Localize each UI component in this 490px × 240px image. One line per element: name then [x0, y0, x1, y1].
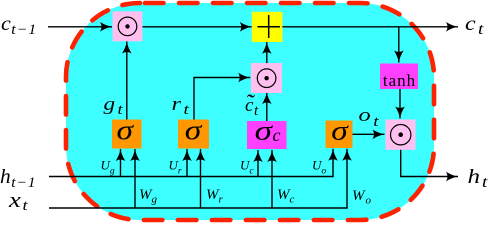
svg-text:σ: σ	[331, 116, 349, 146]
svg-text:tanh: tanh	[383, 71, 416, 90]
wire c~ gate up to mult2	[266, 92, 268, 121]
svg-text:c: c	[273, 125, 281, 145]
wire mult2 up to plus	[266, 42, 268, 63]
wire c_{t-1} input to mult1	[48, 26, 112, 28]
wire U_c branch into c~ gate	[257, 150, 259, 177]
wire mult1 to plus	[142, 26, 251, 28]
sigma gate o (orange)	[326, 116, 353, 148]
sigma gate r (orange)	[178, 115, 209, 148]
mult2 (element-wise product, middle)	[251, 63, 282, 93]
sigma gate g (orange)	[112, 115, 142, 148]
wire tanh to mult3	[399, 89, 401, 119]
svg-text:xt: xt	[8, 188, 28, 214]
sigma_c gate (magenta)	[247, 115, 287, 149]
svg-text:ht: ht	[468, 165, 489, 190]
wire r gate up and right to mult2	[194, 78, 250, 120]
wire W_r branch into r gate	[200, 149, 202, 208]
wire o gate to mult3	[353, 133, 385, 135]
svg-text:ct: ct	[465, 12, 485, 38]
svg-text:σ: σ	[116, 115, 134, 145]
wire plus to c_t output	[282, 26, 458, 28]
wire U_r branch into r gate	[186, 149, 188, 177]
plus (add node, yellow)	[252, 12, 283, 42]
wire mult3 down and right to h_t output	[401, 150, 458, 177]
wire U_g branch into g gate	[120, 149, 122, 177]
svg-text:ct−1: ct−1	[1, 12, 37, 38]
wire branch down to tanh	[398, 27, 400, 63]
wire W_c branch into c~ gate	[271, 150, 273, 208]
svg-text:σ: σ	[255, 115, 274, 145]
wire g gate up to mult1	[126, 42, 128, 120]
wire W_g branch into g gate	[134, 149, 136, 208]
mult1 (element-wise product, top left)	[113, 11, 143, 41]
svg-text:σ: σ	[185, 115, 203, 145]
tanh box	[380, 64, 418, 91]
cell body (cyan rounded blob with red dashed border)	[66, 3, 434, 220]
wire h_{t-1} input line across, turning up into o gate	[49, 149, 333, 177]
mult3 (output product, pink)	[386, 120, 416, 150]
wire x_t input line across, turning up into o gate	[49, 149, 347, 208]
